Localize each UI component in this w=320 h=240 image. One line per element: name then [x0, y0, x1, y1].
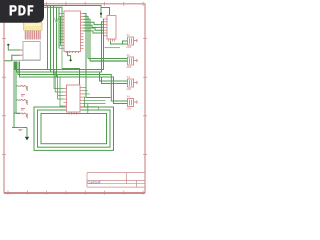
- U1 left pins: [62, 14, 65, 49]
- K1 base plate: [12, 59, 40, 61]
- U2 bottom pins: [109, 39, 115, 42]
- wire to X4: [83, 98, 111, 104]
- junction dot A: [100, 13, 102, 15]
- svg-text:16M: 16M: [126, 45, 131, 49]
- top rail wires: [44, 6, 101, 78]
- transistor Q2: [16, 99, 27, 110]
- wires K1 left: [5, 46, 21, 61]
- relay K1 body: [23, 42, 40, 61]
- transformer windings: [25, 31, 42, 40]
- op-amp / MCU U1: [64, 11, 81, 52]
- K1 base pin: [11, 57, 13, 60]
- svg-text:X4: X4: [127, 95, 131, 99]
- crystal X3: [126, 75, 137, 91]
- crystal X1: [126, 33, 137, 49]
- wires into U1 left pins: [59, 7, 62, 68]
- transformer T1 yellow body: [24, 22, 43, 31]
- svg-text:X2: X2: [127, 53, 131, 57]
- driver U2: [107, 16, 116, 40]
- wire to X3: [100, 72, 128, 84]
- K1 left pins: [20, 50, 23, 55]
- wire to X1: [111, 41, 128, 44]
- svg-text:16M: 16M: [126, 65, 131, 69]
- supply arrow V+: [54, 18, 58, 23]
- crystal X2: [126, 53, 137, 69]
- left net bus: [12, 62, 27, 137]
- schematic frame border: [2, 2, 147, 195]
- wire U1 bottom / junction B: [68, 52, 71, 60]
- PDF badge: [0, 0, 44, 23]
- bus wires from K1 to U2: [15, 19, 128, 104]
- svg-text:CadSoft: CadSoft: [88, 181, 101, 185]
- U3 bottom pins: [69, 112, 77, 115]
- transistor Q1: [16, 85, 27, 96]
- resistor R5 inline: [18, 128, 23, 132]
- svg-text:16M: 16M: [126, 87, 131, 91]
- wire from frame left to U3 area: [14, 108, 20, 113]
- U1 right pins: [81, 14, 84, 49]
- svg-text:16M: 16M: [126, 106, 131, 110]
- wire U2 top: [101, 8, 110, 16]
- U1 bottom pin dots: [66, 52, 79, 53]
- transistor Q3: [16, 113, 27, 119]
- ground symbol: [25, 137, 29, 141]
- wire to X2: [88, 59, 128, 62]
- fanout from U1 right pins: [84, 14, 105, 98]
- wire under U2: [105, 47, 121, 49]
- wires into U3 left pins: [54, 70, 64, 106]
- junction dot C: [7, 44, 9, 46]
- U3 left pins: [64, 89, 67, 107]
- U2 left pins: [104, 19, 107, 36]
- crystal X4: [126, 95, 137, 111]
- title block: [87, 173, 145, 188]
- wire loop bus below U3: [34, 98, 114, 151]
- U3 right pins: [80, 88, 83, 107]
- wire stub down-right of U1: [62, 69, 80, 85]
- controller U3: [67, 85, 81, 112]
- wires from U3 right pins: [83, 88, 99, 111]
- svg-text:X1: X1: [127, 33, 131, 37]
- svg-text:X3: X3: [127, 75, 131, 79]
